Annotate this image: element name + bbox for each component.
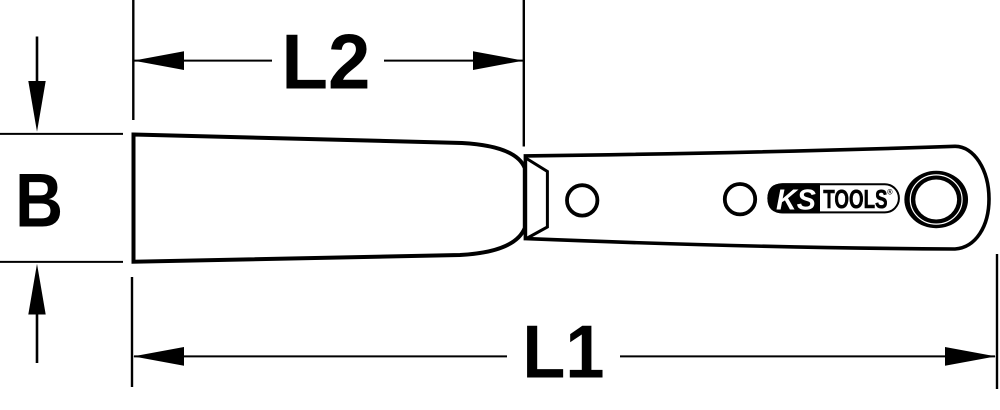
- svg-text:L2: L2: [281, 19, 370, 106]
- wire: B top extension line: [0, 133, 123, 135]
- wire: L2 right extension line: [523, 0, 525, 147]
- svg-text:B: B: [15, 158, 63, 243]
- B dimension upper arrow: [28, 37, 45, 132]
- handle plate: [525, 146, 989, 249]
- wire: L1 right extension line: [996, 254, 998, 389]
- svg-text:®: ®: [887, 188, 893, 197]
- svg-text:KS: KS: [776, 184, 816, 216]
- wire: L2 left extension line: [132, 0, 134, 120]
- tang chamfer detail: [527, 159, 548, 239]
- hole 1: [567, 185, 597, 215]
- L2 dimension line left segment with arrow: [134, 51, 273, 70]
- L2 dimension line right segment with arrow: [384, 51, 523, 70]
- blade of putty knife: [134, 135, 525, 262]
- wire: B bottom extension line: [0, 261, 123, 263]
- B dimension lower arrow: [28, 264, 45, 363]
- label L1: [522, 310, 604, 394]
- svg-text:TOOLS: TOOLS: [823, 186, 887, 214]
- L1 dimension line right segment with arrow: [620, 347, 996, 366]
- hanging hole rings: [904, 171, 968, 229]
- label B: [15, 158, 63, 243]
- L1 dimension line left segment with arrow: [133, 347, 507, 366]
- hole 2: [725, 184, 755, 214]
- KS TOOLS logo: [767, 183, 899, 216]
- svg-text:L1: L1: [522, 310, 604, 394]
- wire: L1 left extension line: [131, 277, 133, 387]
- label L2: [281, 19, 370, 106]
